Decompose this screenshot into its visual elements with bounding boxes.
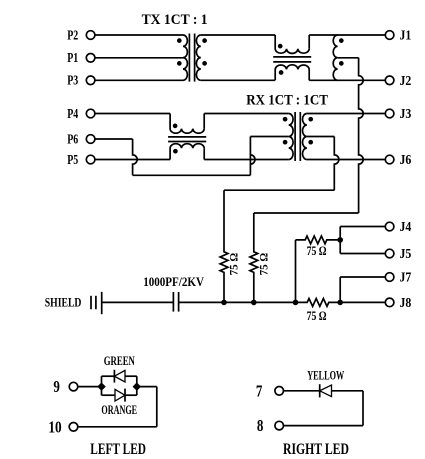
terminal P3	[86, 76, 95, 85]
terminal J7	[385, 273, 394, 282]
svg-text:LEFT LED: LEFT LED	[90, 441, 146, 458]
wire P6 riser with hop to T3 center tap	[250, 137, 255, 176]
svg-text:GREEN: GREEN	[104, 354, 135, 368]
wire RX center tap horizontal	[224, 189, 334, 191]
junction LED left	[97, 382, 105, 390]
svg-text:YELLOW: YELLOW	[307, 368, 344, 382]
svg-text:P2: P2	[67, 28, 78, 43]
svg-text:75 Ω: 75 Ω	[307, 309, 327, 323]
wire choke L1 to J2	[309, 79, 385, 81]
svg-text:P6: P6	[67, 132, 78, 147]
terminal J6	[385, 155, 394, 164]
LED D2 orange bottom rail left	[102, 394, 116, 396]
LED box left edge	[101, 376, 103, 395]
choke L1 bottom winding drop	[308, 69, 310, 80]
L2 bottom polarity dot	[173, 149, 178, 154]
wire choke L2 to T3 primary bottom	[204, 159, 289, 161]
wire LED return vertical	[156, 387, 158, 427]
wire TX center tap vertical with hops	[359, 58, 364, 213]
T1 secondary polarity dot upper	[202, 38, 207, 43]
LED D2 orange triangle	[115, 389, 125, 401]
LED D2 orange bottom rail right	[125, 394, 137, 396]
wire P6 vertical with hop over P5	[133, 139, 138, 175]
transformer T3 secondary winding	[302, 114, 306, 160]
resistor R3 75ohm	[296, 236, 341, 244]
svg-text:J2: J2	[400, 74, 412, 89]
wire T3 secondary center tap	[307, 136, 334, 138]
svg-text:P5: P5	[67, 153, 78, 168]
wire P2 to T1	[95, 34, 183, 36]
transformer T1 core	[188, 34, 190, 82]
wire P6 horizontal	[95, 138, 133, 140]
svg-text:J5: J5	[400, 247, 412, 262]
terminal P1	[86, 54, 95, 63]
wire choke L1 to J1	[309, 34, 385, 36]
wire RX center tap vertical with hop	[334, 137, 339, 191]
wire to J7	[340, 276, 385, 278]
LED D1 green triangle	[114, 370, 125, 382]
T1 secondary polarity dot lower	[202, 61, 207, 66]
wire D3 to corner	[332, 390, 364, 392]
LED D1 green cathode bar	[113, 370, 115, 383]
junction LED right	[133, 382, 141, 390]
terminal J5	[385, 249, 394, 258]
svg-text:75 Ω: 75 Ω	[227, 253, 241, 276]
terminal J4	[385, 222, 394, 231]
wire junction to J4/J5 vertical	[339, 227, 341, 254]
terminal J1	[385, 31, 394, 40]
svg-text:7: 7	[256, 381, 263, 400]
junction R3 right	[337, 237, 343, 243]
transformer T1 primary winding	[183, 35, 187, 80]
wire return to 8	[284, 425, 364, 427]
autotransformer winding T2	[333, 35, 337, 80]
wire P6 bottom horizontal	[133, 174, 251, 176]
terminal P6	[86, 135, 95, 144]
LED D2 orange cathode bar	[124, 389, 126, 402]
terminal P2	[86, 31, 95, 40]
terminal 9	[69, 382, 78, 391]
wire C1 to bus	[179, 301, 224, 303]
LED D1 green top rail left	[102, 375, 115, 377]
svg-text:J7: J7	[400, 271, 412, 286]
svg-text:P1: P1	[67, 51, 78, 66]
transformer T1 secondary winding	[196, 35, 200, 80]
T1 primary polarity dot lower	[177, 61, 182, 66]
wire P3 to T1	[95, 79, 183, 81]
L1 bottom polarity dot	[279, 70, 284, 75]
T1 primary polarity dot upper	[177, 38, 182, 43]
LED D3 yellow cathode bar	[319, 384, 321, 397]
choke L2 bottom winding	[170, 144, 204, 160]
T2 polarity dot upper	[339, 38, 344, 43]
junction bus at J7 riser	[337, 300, 343, 306]
junction bus at R3	[293, 300, 299, 306]
T3 secondary polarity dot upper	[308, 117, 313, 122]
svg-text:10: 10	[48, 417, 61, 436]
shield symbol	[90, 296, 92, 309]
choke L2 bottom winding drop	[203, 148, 205, 159]
T2 polarity dot lower	[339, 61, 344, 66]
wire T2 center tap	[338, 57, 359, 59]
svg-text:P3: P3	[67, 74, 78, 89]
terminal J2	[385, 76, 394, 85]
terminal J8	[385, 298, 394, 307]
junction bus at R2	[251, 300, 257, 306]
capacitor C1	[172, 292, 174, 312]
svg-text:75 Ω: 75 Ω	[256, 253, 270, 276]
choke L1 top winding rise	[308, 35, 310, 49]
svg-text:8: 8	[257, 416, 264, 435]
svg-text:P4: P4	[67, 107, 78, 122]
choke L1 top winding	[275, 35, 309, 53]
wire bus to J8	[340, 301, 385, 303]
terminal 7	[275, 387, 284, 396]
transformer T3 core	[294, 112, 296, 161]
svg-text:J8: J8	[400, 296, 412, 311]
wire to T3 primary center tap	[250, 136, 288, 138]
svg-text:TX 1CT : 1: TX 1CT : 1	[142, 12, 208, 28]
choke L1 bottom winding	[275, 65, 309, 81]
wire R3 left riser	[295, 240, 297, 303]
svg-text:RX 1CT : 1CT: RX 1CT : 1CT	[246, 92, 328, 108]
terminal J3	[385, 109, 394, 118]
T3 primary polarity dot lower	[283, 140, 288, 145]
svg-text:RIGHT LED: RIGHT LED	[283, 441, 349, 458]
wire to J5	[340, 253, 385, 255]
wire T1 secondary top to choke L1	[201, 34, 275, 36]
svg-text:J4: J4	[400, 220, 412, 235]
choke L1 core	[273, 56, 311, 58]
wire right LED return vertical	[362, 391, 364, 426]
wire bus R1 to R2	[224, 301, 254, 303]
choke L2 top winding	[170, 114, 204, 134]
wire P1 to T1 center tap	[95, 57, 183, 59]
wire T1 secondary bottom to choke L1	[201, 79, 275, 81]
resistor R1 75ohm RX	[220, 190, 228, 302]
LED box right edge	[136, 376, 138, 395]
wire T3 secondary to J6	[307, 159, 386, 161]
T3 secondary polarity dot lower	[308, 140, 313, 145]
wire LED pair to corner	[137, 386, 157, 388]
wire choke L2 to T3 primary top	[204, 113, 289, 115]
LED D1 green top rail right	[125, 375, 137, 377]
terminal P5	[86, 155, 95, 164]
wire to J4	[340, 226, 385, 228]
resistor R2 75ohm TX	[250, 213, 258, 302]
wire 9 to LED pair	[78, 386, 102, 388]
svg-text:J6: J6	[400, 153, 412, 168]
terminal 10	[69, 423, 78, 432]
terminal 8	[275, 421, 284, 430]
svg-text:9: 9	[53, 377, 60, 396]
transformer T3 primary winding	[289, 114, 293, 160]
LED D3 yellow triangle	[320, 385, 332, 397]
svg-text:1000PF/2KV: 1000PF/2KV	[143, 274, 204, 289]
wire P4 to choke L2	[95, 113, 170, 115]
wire T3 secondary to J3	[307, 113, 386, 115]
choke L2 core	[168, 136, 206, 138]
wire J7 riser	[339, 277, 341, 302]
junction bus at R1	[221, 300, 227, 306]
resistor R4 75ohm inline bus	[296, 299, 341, 307]
wire shield to C1	[102, 301, 174, 303]
wire 7 to LED D3	[284, 390, 320, 392]
wire P5 to choke L2	[95, 159, 170, 161]
svg-text:75 Ω: 75 Ω	[307, 244, 327, 258]
svg-text:SHIELD: SHIELD	[45, 294, 82, 309]
L2 top polarity dot	[173, 124, 178, 129]
T3 primary polarity dot upper	[283, 117, 288, 122]
wire bus R2 to R3	[254, 301, 296, 303]
wire TX center tap horizontal	[254, 212, 359, 214]
svg-text:J3: J3	[400, 107, 412, 122]
svg-text:J1: J1	[400, 29, 412, 44]
svg-text:ORANGE: ORANGE	[101, 403, 137, 417]
L1 top polarity dot	[278, 44, 283, 49]
choke L2 top winding rise	[203, 114, 205, 129]
wire return to 10	[78, 426, 157, 428]
terminal P4	[86, 109, 95, 118]
